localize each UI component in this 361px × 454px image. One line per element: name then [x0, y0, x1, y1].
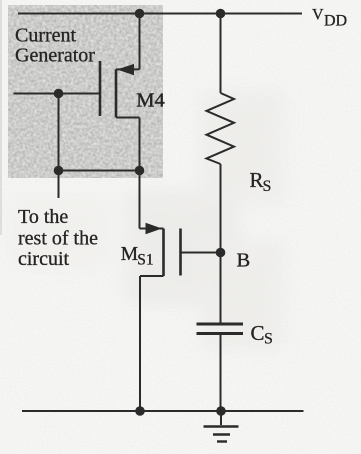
svg-text:Generator: Generator — [15, 45, 95, 67]
label VDD — [312, 7, 347, 30]
scan artifact left edge — [0, 0, 2, 235]
ground symbol — [204, 411, 239, 442]
wire capacitor to ground rail — [220, 335, 222, 411]
label RS — [250, 168, 272, 195]
wire M4 source to VDD — [139, 14, 141, 70]
node: junction dot CS / rail — [216, 406, 226, 416]
node: junction dot lower left — [54, 166, 64, 176]
wire resistor to capacitor — [220, 164, 222, 323]
node: junction dot on drain wire — [135, 166, 145, 176]
transistor M4 (PMOS) — [100, 61, 140, 118]
current generator shaded box — [8, 5, 163, 178]
svg-text:Current: Current — [15, 25, 77, 47]
svg-text:M4: M4 — [136, 89, 164, 111]
label To the rest of the circuit — [18, 206, 98, 270]
svg-text:R: R — [250, 168, 264, 192]
capacitor CS — [197, 324, 244, 334]
ground rail (bottom wire) — [22, 410, 304, 412]
VDD rail (top wire) — [18, 13, 302, 15]
svg-text:S1: S1 — [137, 252, 153, 269]
wire VDD to resistor — [220, 14, 222, 94]
label CS — [251, 321, 273, 348]
svg-text:V: V — [312, 7, 324, 24]
wire gate node down — [58, 94, 60, 171]
wire MS1 gate lead to node B — [181, 252, 221, 254]
wire M4 drain down to MS1 — [139, 118, 141, 229]
resistor RS — [207, 93, 235, 164]
svg-text:DD: DD — [324, 13, 347, 30]
wire MS1 source down to ground rail — [139, 276, 141, 411]
node: junction dot VDD / RS — [216, 9, 226, 19]
transistor MS1 (mirrored) — [140, 223, 181, 276]
svg-text:To the: To the — [18, 206, 68, 228]
wire stub to rest of circuit — [58, 171, 60, 199]
svg-text:circuit: circuit — [18, 248, 70, 270]
svg-text:S: S — [263, 178, 272, 195]
node: junction dot MS1 / rail — [135, 406, 145, 416]
node B dot — [216, 248, 226, 258]
node: junction dot VDD / M4 source — [135, 9, 145, 19]
label Current Generator — [15, 25, 95, 67]
svg-text:S: S — [264, 331, 273, 348]
node: junction dot on gate wire — [54, 89, 64, 99]
wire horizontal link to drain line — [59, 170, 140, 172]
svg-text:B: B — [237, 250, 251, 272]
svg-text:M: M — [121, 244, 138, 265]
label MS1 — [121, 244, 154, 269]
svg-text:C: C — [251, 321, 265, 345]
wire M4 gate lead — [14, 93, 101, 95]
svg-text:rest of the: rest of the — [18, 228, 98, 250]
